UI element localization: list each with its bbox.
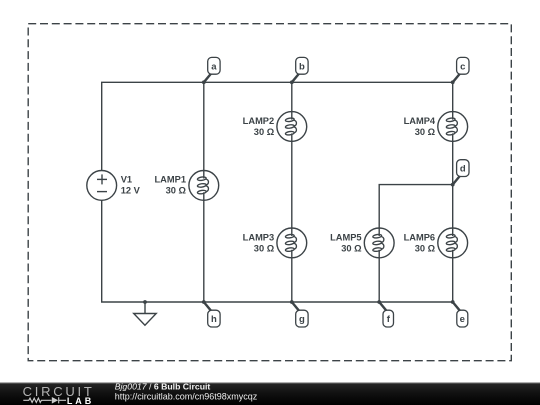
svg-text:g: g xyxy=(299,314,305,325)
ground xyxy=(134,300,157,325)
svg-text:a: a xyxy=(211,61,217,72)
node c xyxy=(451,57,469,84)
svg-text:Bjg0017 / 6 Bulb Circuit: Bjg0017 / 6 Bulb Circuit xyxy=(115,381,211,391)
label LAMP5 30 ohm xyxy=(330,233,362,254)
footer bar xyxy=(0,382,540,405)
lamp LAMP1 xyxy=(189,171,219,201)
svg-text:30 Ω: 30 Ω xyxy=(166,186,187,196)
lamp LAMP5 xyxy=(364,228,394,258)
node h xyxy=(202,300,220,327)
node a xyxy=(202,57,220,84)
svg-text:c: c xyxy=(460,61,465,72)
svg-text:12 V: 12 V xyxy=(121,186,141,196)
node b xyxy=(290,57,308,84)
wire branch b-g through LAMP2 LAMP3 xyxy=(291,82,293,302)
voltage source V1 xyxy=(87,171,117,201)
node f xyxy=(377,300,393,327)
lamp LAMP4 xyxy=(438,112,468,142)
svg-text:LAMP5: LAMP5 xyxy=(330,233,362,243)
wire top bus a-b-c with left branch through V1 and bottom bus h-g-f-e xyxy=(102,82,453,302)
svg-text:30 Ω: 30 Ω xyxy=(415,244,436,254)
node e xyxy=(451,300,468,327)
lamp LAMP3 xyxy=(277,228,307,258)
svg-text:V1: V1 xyxy=(121,175,132,185)
label LAMP6 30 ohm xyxy=(404,233,436,254)
svg-text:http://circuitlab.com/cn96t98x: http://circuitlab.com/cn96t98xmycqz xyxy=(115,391,258,401)
svg-text:30 Ω: 30 Ω xyxy=(341,244,362,254)
label LAMP3 30 ohm xyxy=(243,233,275,254)
wire branch a-h through LAMP1 xyxy=(203,82,205,302)
label LAMP4 30 ohm xyxy=(404,116,436,137)
CircuitLab logo xyxy=(23,384,95,405)
svg-text:30 Ω: 30 Ω xyxy=(415,127,436,137)
label LAMP1 30 ohm xyxy=(154,175,186,196)
label LAMP2 30 ohm xyxy=(243,116,275,137)
svg-text:LAMP4: LAMP4 xyxy=(404,116,436,126)
svg-text:d: d xyxy=(460,164,466,175)
svg-text:LAMP6: LAMP6 xyxy=(404,233,436,243)
node g xyxy=(290,300,308,327)
svg-text:e: e xyxy=(460,314,465,325)
label V1 12 V xyxy=(121,175,141,196)
svg-text:LAMP3: LAMP3 xyxy=(243,233,275,243)
wire branch c-e through LAMP4 LAMP6 xyxy=(452,82,454,302)
svg-text:LAMP1: LAMP1 xyxy=(154,175,186,185)
lamp LAMP6 xyxy=(438,228,468,258)
svg-text:30 Ω: 30 Ω xyxy=(254,244,275,254)
svg-text:LAMP2: LAMP2 xyxy=(243,116,275,126)
svg-text:30 Ω: 30 Ω xyxy=(254,127,275,137)
svg-text:LAB: LAB xyxy=(67,396,94,405)
svg-text:b: b xyxy=(299,61,305,72)
svg-text:h: h xyxy=(211,314,217,325)
wire node d horizontal and branch d-f through LAMP5 xyxy=(379,185,453,302)
lamp LAMP2 xyxy=(277,112,307,142)
node d xyxy=(451,160,469,187)
